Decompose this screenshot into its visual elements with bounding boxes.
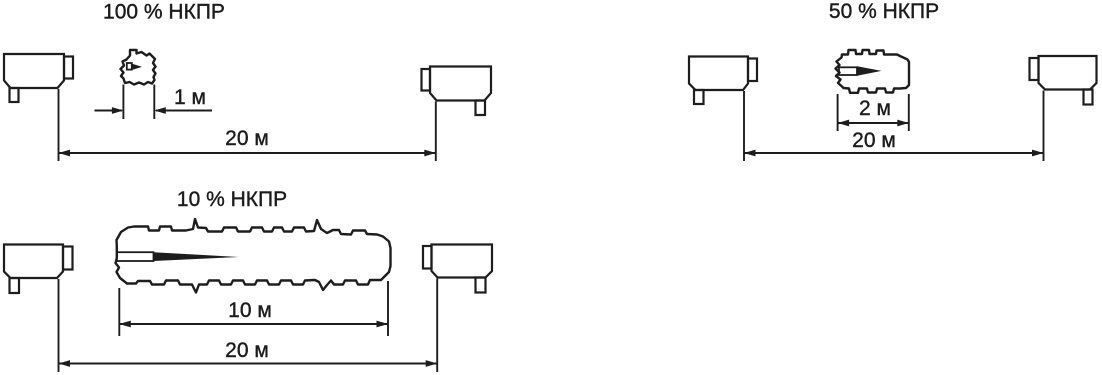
dimension 20 м (group 1)	[59, 89, 436, 161]
svg-text:2 м: 2 м	[859, 97, 891, 120]
gas detector D6 right (group 3)	[423, 245, 492, 293]
title group 2: 50 % НКПР	[829, 0, 939, 23]
svg-text:100 % НКПР: 100 % НКПР	[103, 1, 225, 24]
gas cloud 50% (group 2)	[836, 50, 910, 93]
gas detector D5 left (group 3)	[4, 245, 73, 294]
dimension 20 м (group 2)	[744, 91, 1044, 162]
leak arrow inside cloud 3	[117, 252, 239, 261]
svg-text:20 м: 20 м	[225, 127, 269, 150]
dimension 2 м (group 2)	[838, 94, 909, 131]
title group 3: 10 % НКПР	[177, 188, 287, 211]
svg-text:10 % НКПР: 10 % НКПР	[177, 188, 287, 211]
svg-text:50 % НКПР: 50 % НКПР	[829, 0, 939, 23]
leak arrow inside cloud 1	[127, 63, 142, 70]
svg-text:20 м: 20 м	[225, 339, 269, 362]
gas cloud 10% (group 3)	[116, 219, 391, 293]
svg-text:1 м: 1 м	[174, 86, 206, 109]
dimension 10 м (group 3)	[119, 281, 388, 336]
svg-text:20 м: 20 м	[852, 129, 896, 152]
gas detector D4 right (group 2)	[1030, 56, 1097, 105]
leak arrow inside cloud 2	[839, 66, 882, 76]
title group 1: 100 % НКПР	[103, 1, 225, 24]
gas detector D3 left (group 2)	[689, 57, 757, 105]
gas cloud 100% (group 1)	[121, 50, 156, 85]
dimension 20 м (group 3)	[59, 279, 438, 373]
svg-text:10 м: 10 м	[228, 299, 272, 322]
dimension 1 м (group 1)	[95, 85, 213, 120]
gas detector D1 left (group 1)	[4, 54, 73, 102]
gas detector D2 right (group 1)	[422, 67, 492, 116]
